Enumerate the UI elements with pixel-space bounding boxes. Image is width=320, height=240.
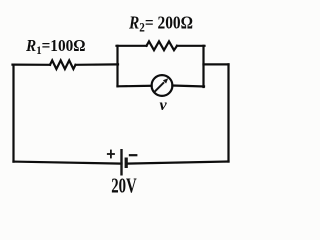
svg-text:20V: 20V: [111, 174, 137, 198]
resistor R2: [147, 41, 178, 50]
resistor R1: [50, 60, 76, 69]
wire right vertical: [227, 64, 229, 161]
node right junction vertical: [202, 46, 204, 87]
svg-text:R1=100Ω: R1=100Ω: [25, 36, 85, 57]
wire R1 to junction: [76, 63, 119, 66]
node left junction vertical: [116, 46, 118, 87]
wire top-left horizontal: [13, 63, 51, 65]
svg-text:v: v: [159, 97, 167, 114]
wire top outgoing: [204, 63, 229, 65]
wire box bottom-right: [172, 86, 204, 87]
battery minus sign: [129, 154, 138, 156]
wire box top-left: [117, 45, 147, 47]
wire box bottom-left: [118, 85, 152, 88]
svg-text:R2= 200Ω: R2= 200Ω: [128, 13, 193, 35]
battery long plate (+): [120, 149, 122, 176]
battery short plate (-): [125, 158, 128, 169]
wire bottom-right: [126, 162, 228, 164]
voltmeter needle arrow: [155, 78, 169, 92]
wire left vertical: [12, 65, 14, 162]
wire box top-right: [177, 45, 205, 47]
voltmeter V body: [152, 75, 173, 96]
battery plus sign: [107, 150, 115, 159]
wire bottom-left: [14, 162, 122, 164]
